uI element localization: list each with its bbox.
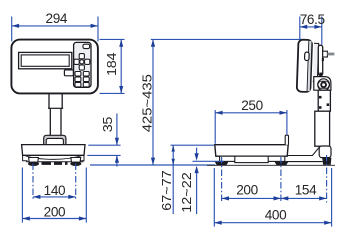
svg-text:12~22: 12~22	[180, 172, 194, 212]
platform box (front view)	[22, 145, 85, 156]
mounting arm	[318, 45, 322, 75]
platform (side view)	[215, 145, 288, 157]
hinge nut	[318, 81, 330, 88]
dim 250	[215, 112, 287, 114]
right foot (side)	[274, 162, 288, 166]
head edge face shading	[307, 41, 311, 91]
keypad panel	[74, 42, 91, 87]
base underside line	[26, 161, 84, 163]
svg-text:154: 154	[295, 183, 317, 198]
dim 425~435	[152, 39, 154, 165]
dim 184	[120, 39, 122, 93]
svg-text:200: 200	[44, 205, 66, 220]
base arm to foot	[285, 147, 323, 161]
thumbscrew	[323, 51, 328, 57]
platform top extension	[171, 144, 215, 146]
foot centrelines	[32, 164, 34, 202]
left foot (side)	[215, 162, 229, 166]
mount plate	[313, 43, 319, 81]
column (side view)	[318, 90, 330, 111]
column clamp bracket	[44, 135, 66, 145]
arm base dark wedge	[319, 73, 322, 76]
dim 250 extension lines	[214, 110, 216, 144]
svg-text:140: 140	[44, 183, 66, 198]
svg-text:400: 400	[265, 208, 287, 223]
column (front view)	[49, 94, 62, 109]
keypad 2x3 keys	[75, 72, 81, 77]
svg-text:184: 184	[105, 52, 119, 76]
indicator head (front view)	[11, 40, 98, 94]
dim 140	[33, 196, 76, 198]
arm side dark square	[322, 58, 324, 61]
dim 200	[22, 218, 86, 220]
dim 400 extension lines	[213, 168, 215, 227]
under-base dark segments	[42, 162, 68, 165]
small key left of keypad	[64, 70, 73, 76]
dim 294	[12, 25, 98, 27]
dim 200 extension lines	[21, 168, 23, 223]
svg-text:35: 35	[101, 117, 115, 132]
d-pad centre	[80, 60, 84, 64]
dim 400	[214, 222, 331, 224]
svg-text:67~77: 67~77	[160, 170, 174, 210]
svg-text:250: 250	[241, 98, 263, 113]
left foot	[29, 158, 39, 163]
dim 12~22	[196, 148, 198, 159]
hinge circles	[318, 79, 330, 91]
LCD display window	[19, 52, 72, 68]
base bottom extension	[193, 160, 224, 162]
dim 67~77	[172, 145, 174, 165]
d-pad keys	[79, 54, 84, 59]
ground extension line	[90, 164, 215, 166]
base casting profile	[24, 155, 83, 159]
dim 35	[116, 114, 118, 146]
svg-text:76.5: 76.5	[300, 12, 325, 27]
dim 200 (side)	[222, 197, 281, 199]
hinge bracket	[314, 77, 331, 91]
head (side view)	[297, 40, 319, 93]
foot centrelines (side)	[221, 157, 223, 203]
svg-text:200: 200	[236, 183, 258, 198]
ground line (side)	[207, 164, 335, 166]
right corner hook	[79, 155, 84, 161]
dim 35 extension lines	[88, 144, 120, 146]
svg-text:425~435: 425~435	[139, 74, 154, 132]
base plate (side view)	[220, 156, 285, 161]
dim 154	[281, 197, 327, 199]
power key	[83, 44, 90, 48]
dim 294 extension lines	[11, 17, 13, 42]
dim 76.5	[300, 26, 322, 28]
right foot	[71, 158, 81, 163]
column foot	[319, 146, 331, 158]
dim 425~435 top extension	[151, 38, 305, 40]
dim 76.5 extension lines	[299, 17, 301, 40]
rear tab	[285, 135, 288, 145]
left corner hook	[23, 155, 28, 161]
dim 184 extension lines	[100, 38, 125, 40]
svg-text:294: 294	[46, 11, 68, 26]
head slot	[304, 52, 309, 61]
